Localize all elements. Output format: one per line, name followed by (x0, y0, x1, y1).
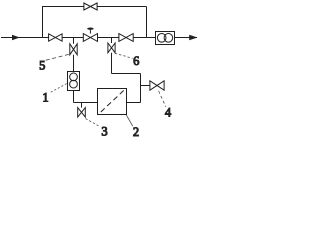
wire A to B (62, 37, 83, 39)
leader 1 (51, 83, 67, 92)
wire inlet (1, 37, 49, 39)
rotameter 1 bottom circle (70, 80, 78, 88)
valve 6 stem (111, 38, 113, 44)
valve 5 (vertical bowtie) (70, 44, 77, 55)
svg-text:2: 2 (133, 125, 139, 139)
svg-text:5: 5 (39, 59, 45, 73)
leader 5 (46, 54, 69, 60)
flow meter right circle (164, 34, 173, 43)
wire box2 outlet (127, 102, 141, 104)
valve 5 stem bottom (73, 55, 75, 72)
valve 3 (vertical bowtie drain) (78, 108, 86, 118)
bypass downcomer (146, 7, 148, 38)
outlet flow arrow (189, 35, 197, 40)
valve C (gate valve, main line right) (119, 34, 133, 42)
leader 3 (86, 119, 101, 127)
valve 5 stem top (73, 38, 75, 44)
svg-text:3: 3 (101, 125, 107, 139)
leader 4 (159, 91, 166, 107)
valve 4 stub (141, 85, 150, 87)
wire rotameter drop (73, 91, 75, 103)
wire cross run (112, 73, 141, 75)
bypass top wire right (97, 6, 146, 8)
valve 3 stem (81, 103, 83, 108)
bypass riser (42, 7, 44, 38)
valve B stem (89, 30, 91, 34)
apparatus 2 dashed diagonal (101, 90, 124, 112)
leader 2 (126, 115, 133, 126)
bypass valve (top line) (84, 3, 97, 10)
rotameter 1 box (68, 72, 80, 91)
wire bottom run (74, 102, 98, 104)
apparatus 2 box (98, 89, 127, 115)
valve 6 (vertical bowtie) (108, 43, 115, 53)
svg-text:1: 1 (42, 91, 48, 105)
valve B (globe valve with handle) body (83, 34, 97, 42)
valve 4 (sample valve) (150, 81, 164, 90)
inlet flow arrow (12, 35, 20, 41)
flow meter left circle (157, 34, 166, 43)
svg-text:6: 6 (133, 54, 139, 68)
wire right riser (140, 74, 142, 103)
flow meter box (156, 32, 175, 45)
rotameter 1 top circle (70, 73, 78, 81)
wire B to C (98, 37, 119, 39)
bypass top wire left (42, 6, 84, 8)
leader 6 (115, 53, 133, 58)
valve A (gate valve, main line left) (49, 34, 63, 41)
valve B handle (87, 28, 93, 30)
valve 6 drop (111, 53, 113, 74)
wire outlet (175, 37, 198, 39)
svg-text:4: 4 (165, 105, 172, 119)
wire C to flow meter (133, 37, 155, 39)
